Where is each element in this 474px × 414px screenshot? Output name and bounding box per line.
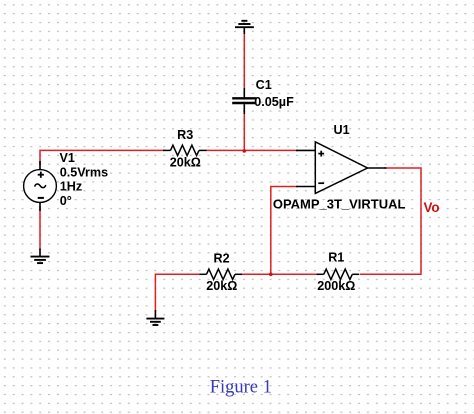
svg-text:V1: V1 — [60, 151, 75, 165]
capacitor C1 — [232, 88, 256, 114]
svg-text:Figure 1: Figure 1 — [210, 377, 272, 397]
ground (top, flipped) — [235, 21, 254, 34]
svg-text:Vo: Vo — [424, 200, 440, 215]
ground (R2 left) — [146, 310, 164, 325]
svg-text:1Hz: 1Hz — [60, 180, 82, 194]
svg-text:R1: R1 — [328, 250, 344, 264]
wire: top ground to C1 — [243, 29, 245, 90]
svg-text:200kΩ: 200kΩ — [317, 279, 355, 293]
svg-text:20kΩ: 20kΩ — [170, 156, 201, 170]
wire: U1 output to R1 right — [360, 168, 421, 274]
op-amp U1 — [296, 142, 387, 194]
ground (V1) — [31, 249, 50, 264]
svg-text:0.05µF: 0.05µF — [254, 95, 294, 109]
wire: C1 to node A — [243, 111, 245, 151]
resistor R1 — [317, 269, 360, 279]
wire: R3 right to U1 + input — [206, 149, 298, 151]
svg-text:20kΩ: 20kΩ — [206, 279, 237, 293]
svg-text:R3: R3 — [177, 128, 193, 142]
wire: ground to R2 left — [155, 274, 201, 312]
wire: node B to R1 left — [271, 273, 318, 275]
AC source V1 — [24, 161, 57, 211]
svg-text:0°: 0° — [60, 194, 72, 208]
svg-text:U1: U1 — [334, 123, 350, 137]
resistor R3 — [163, 145, 207, 155]
junction node B (R2/R1/feedback) — [269, 273, 273, 277]
junction node A (C1/R3/U1+) — [243, 149, 247, 153]
svg-text:0.5Vrms: 0.5Vrms — [60, 166, 108, 180]
resistor R2 — [200, 269, 243, 279]
svg-text:R2: R2 — [214, 251, 230, 265]
svg-text:C1: C1 — [256, 78, 272, 92]
wire: V1 bottom to ground — [39, 206, 41, 250]
wire: V1 top to R3 left — [40, 150, 165, 165]
svg-text:OPAMP_3T_VIRTUAL: OPAMP_3T_VIRTUAL — [273, 198, 406, 212]
wire: U1 - input to feedback node B — [271, 187, 298, 275]
wire: R2 right to node B — [240, 273, 271, 275]
